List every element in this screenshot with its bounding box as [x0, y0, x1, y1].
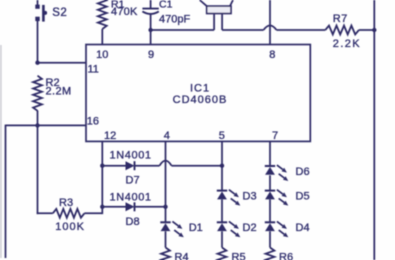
- op-amp-ic U1 IC1 CD4060B box: [86, 45, 310, 142]
- led D3: [217, 190, 227, 192]
- wire node B down to R3: [37, 125, 39, 214]
- wire R1 to pin 10: [101, 29, 103, 45]
- svg-text:12: 12: [104, 130, 116, 142]
- wire hop to R7: [277, 29, 326, 31]
- svg-text:CD4060B: CD4060B: [173, 94, 228, 106]
- wire R3 left: [37, 212, 53, 214]
- switch S2 terminal lower: [35, 17, 39, 21]
- svg-text:S2: S2: [52, 7, 67, 19]
- svg-text:D6: D6: [296, 166, 310, 178]
- svg-text:D4: D4: [296, 222, 310, 234]
- wire S2 to node A: [37, 21, 39, 63]
- node D8-right junction dot: [163, 205, 167, 209]
- svg-text:R6: R6: [279, 252, 293, 260]
- wire pin 12 vertical: [101, 141, 103, 206]
- node B junction dot: [35, 123, 39, 127]
- svg-text:R3: R3: [59, 197, 73, 209]
- svg-text:IC1: IC1: [190, 82, 210, 94]
- wire node C to speaker left lead: [151, 29, 215, 31]
- wire node C to pin 9: [150, 30, 152, 45]
- svg-text:470K: 470K: [111, 6, 138, 18]
- svg-text:16: 16: [87, 115, 99, 127]
- wire R2 bottom: [37, 111, 39, 126]
- wire speaker right lead to hop: [222, 29, 263, 31]
- svg-text:C1: C1: [159, 0, 173, 10]
- svg-text:9: 9: [148, 49, 154, 61]
- svg-text:D3: D3: [243, 191, 257, 203]
- svg-text:2.2K: 2.2K: [333, 38, 361, 50]
- svg-text:D1: D1: [189, 222, 203, 234]
- capacitor C1 bottom plate: [142, 11, 158, 14]
- wire R7 to right rail: [359, 29, 374, 31]
- wire D1 to R4: [165, 231, 167, 247]
- wire D3 to D2: [221, 200, 223, 223]
- svg-text:R4: R4: [175, 252, 189, 260]
- wire D2 to R5: [221, 231, 223, 247]
- speaker cone right edge: [230, 0, 233, 6]
- wire D5 to D4: [269, 200, 271, 223]
- wire R3 right: [84, 212, 102, 214]
- wire D7 hop to pin 5 column: [172, 165, 223, 167]
- wire D7 to hop: [135, 165, 160, 167]
- svg-text:4: 4: [164, 130, 170, 142]
- svg-text:11: 11: [88, 64, 99, 76]
- resistor R6 zigzag: [266, 248, 275, 260]
- svg-text:7: 7: [272, 130, 278, 142]
- wire D4 to R6: [269, 231, 271, 247]
- wire node B to left rail: [6, 124, 38, 126]
- svg-text:2.2M: 2.2M: [46, 85, 72, 97]
- node D7-left junction dot: [100, 164, 104, 168]
- led D2: [217, 221, 227, 223]
- wire pin12 to D8: [102, 206, 125, 208]
- diode D8: [126, 202, 135, 211]
- svg-text:1N4001: 1N4001: [110, 192, 152, 204]
- wire right rail vertical: [373, 0, 375, 260]
- resistor R4 zigzag: [161, 248, 170, 260]
- wire R3 up to node D8: [101, 207, 103, 214]
- resistor R7 zigzag: [325, 26, 359, 35]
- svg-text:R7: R7: [333, 13, 348, 25]
- svg-text:D2: D2: [243, 222, 257, 234]
- resistor R2 zigzag: [33, 76, 42, 111]
- node D8-left junction dot: [100, 205, 104, 209]
- node D7-right junction dot: [220, 164, 224, 168]
- svg-text:470pF: 470pF: [159, 13, 190, 25]
- resistor R3 zigzag: [53, 209, 85, 218]
- led D4: [265, 221, 275, 223]
- wire S2 top: [37, 0, 39, 5]
- wire node A to pin 11: [38, 62, 87, 64]
- led D5: [265, 190, 275, 192]
- switch S2 actuator bar: [42, 5, 45, 22]
- wire D6 to D5: [269, 175, 271, 190]
- left-edge scan artifact: [0, 45, 2, 258]
- switch S2 terminal upper: [35, 5, 39, 9]
- capacitor C1 top plate: [142, 8, 158, 10]
- node C junction dot: [148, 28, 152, 32]
- speaker magnet body: [207, 6, 231, 13]
- led D6: [265, 165, 275, 167]
- speaker lead right: [221, 14, 223, 31]
- svg-text:1N4001: 1N4001: [110, 149, 152, 161]
- wire pin 4 vertical: [165, 141, 167, 222]
- wire node B to pin 16: [38, 124, 87, 126]
- wire C1 top: [150, 0, 152, 9]
- node D junction dot right rail: [372, 28, 376, 32]
- diode D7: [126, 161, 135, 170]
- wire D8 to pin 4 column: [135, 206, 166, 208]
- svg-text:R5: R5: [232, 252, 246, 260]
- speaker lead left: [213, 14, 215, 31]
- svg-text:5: 5: [219, 130, 225, 142]
- svg-text:10: 10: [96, 49, 108, 61]
- wire pin12 to D7: [102, 165, 125, 167]
- wire pin 5 vertical: [221, 141, 223, 190]
- svg-text:D5: D5: [296, 191, 310, 203]
- wire D7 hop over pin 4: [160, 161, 172, 166]
- led D1: [160, 221, 170, 223]
- speaker cone left edge: [200, 0, 207, 6]
- svg-text:D7: D7: [126, 174, 140, 186]
- wire hop over pin 8: [264, 26, 277, 31]
- svg-text:100K: 100K: [55, 221, 85, 233]
- wire C1 to node C: [150, 13, 152, 30]
- wire left rail vertical: [5, 125, 7, 258]
- resistor R1 zigzag: [98, 0, 107, 29]
- resistor R5 zigzag: [218, 248, 227, 260]
- node A junction dot: [35, 61, 39, 65]
- wire pin 7 vertical: [269, 141, 271, 166]
- switch S2 actuator knob: [43, 11, 47, 15]
- svg-text:8: 8: [269, 49, 275, 61]
- svg-text:D8: D8: [126, 216, 140, 228]
- wire pin 8 vertical: [269, 0, 271, 45]
